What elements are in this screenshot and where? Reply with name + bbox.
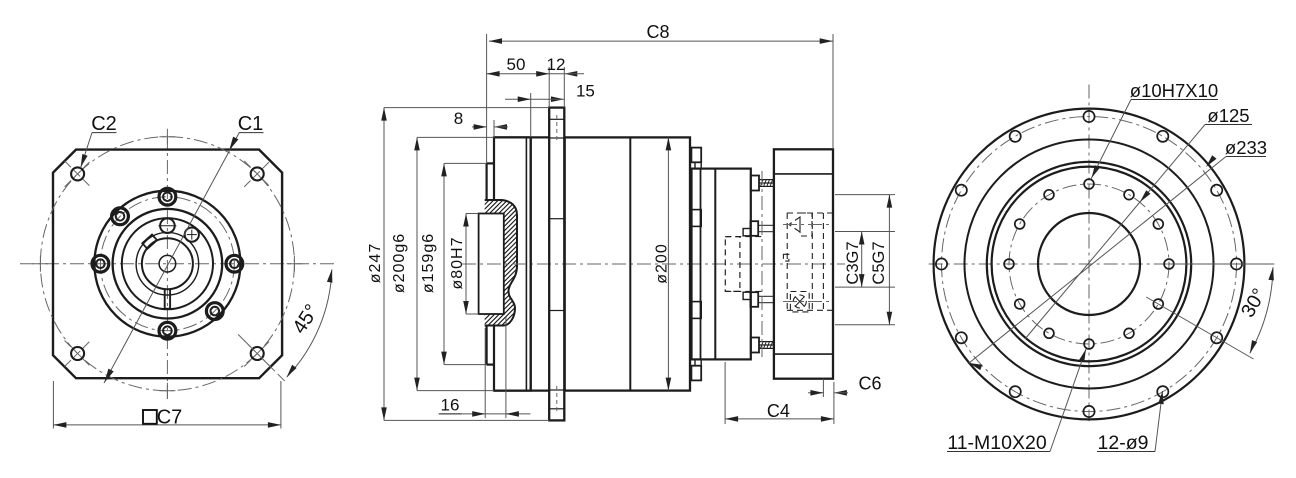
svg-text:C8: C8 bbox=[646, 22, 669, 42]
svg-text:ø10H7X10: ø10H7X10 bbox=[1130, 80, 1218, 101]
svg-text:12: 12 bbox=[547, 55, 566, 74]
svg-text:11-M10X20: 11-M10X20 bbox=[947, 432, 1047, 454]
svg-text:C3G7: C3G7 bbox=[844, 241, 862, 284]
svg-text:50: 50 bbox=[507, 55, 526, 74]
svg-text:8: 8 bbox=[454, 109, 463, 128]
svg-text:C5G7: C5G7 bbox=[870, 241, 888, 284]
svg-text:15: 15 bbox=[576, 81, 595, 100]
svg-text:ø159g6: ø159g6 bbox=[420, 233, 437, 293]
svg-text:C1: C1 bbox=[238, 113, 264, 135]
svg-text:C2: C2 bbox=[91, 113, 117, 135]
svg-text:12-ø9: 12-ø9 bbox=[1098, 432, 1149, 454]
svg-text:ø233: ø233 bbox=[1225, 137, 1267, 158]
svg-text:C7: C7 bbox=[157, 406, 183, 428]
svg-text:ø80H7: ø80H7 bbox=[449, 236, 466, 289]
svg-text:ø200: ø200 bbox=[654, 243, 671, 283]
svg-text:C6: C6 bbox=[858, 374, 881, 394]
svg-text:ø125: ø125 bbox=[1207, 105, 1249, 126]
svg-text:C4: C4 bbox=[767, 401, 790, 421]
svg-text:16: 16 bbox=[441, 396, 460, 415]
svg-text:ø200g6: ø200g6 bbox=[391, 233, 408, 293]
svg-text:ø247: ø247 bbox=[367, 243, 384, 283]
